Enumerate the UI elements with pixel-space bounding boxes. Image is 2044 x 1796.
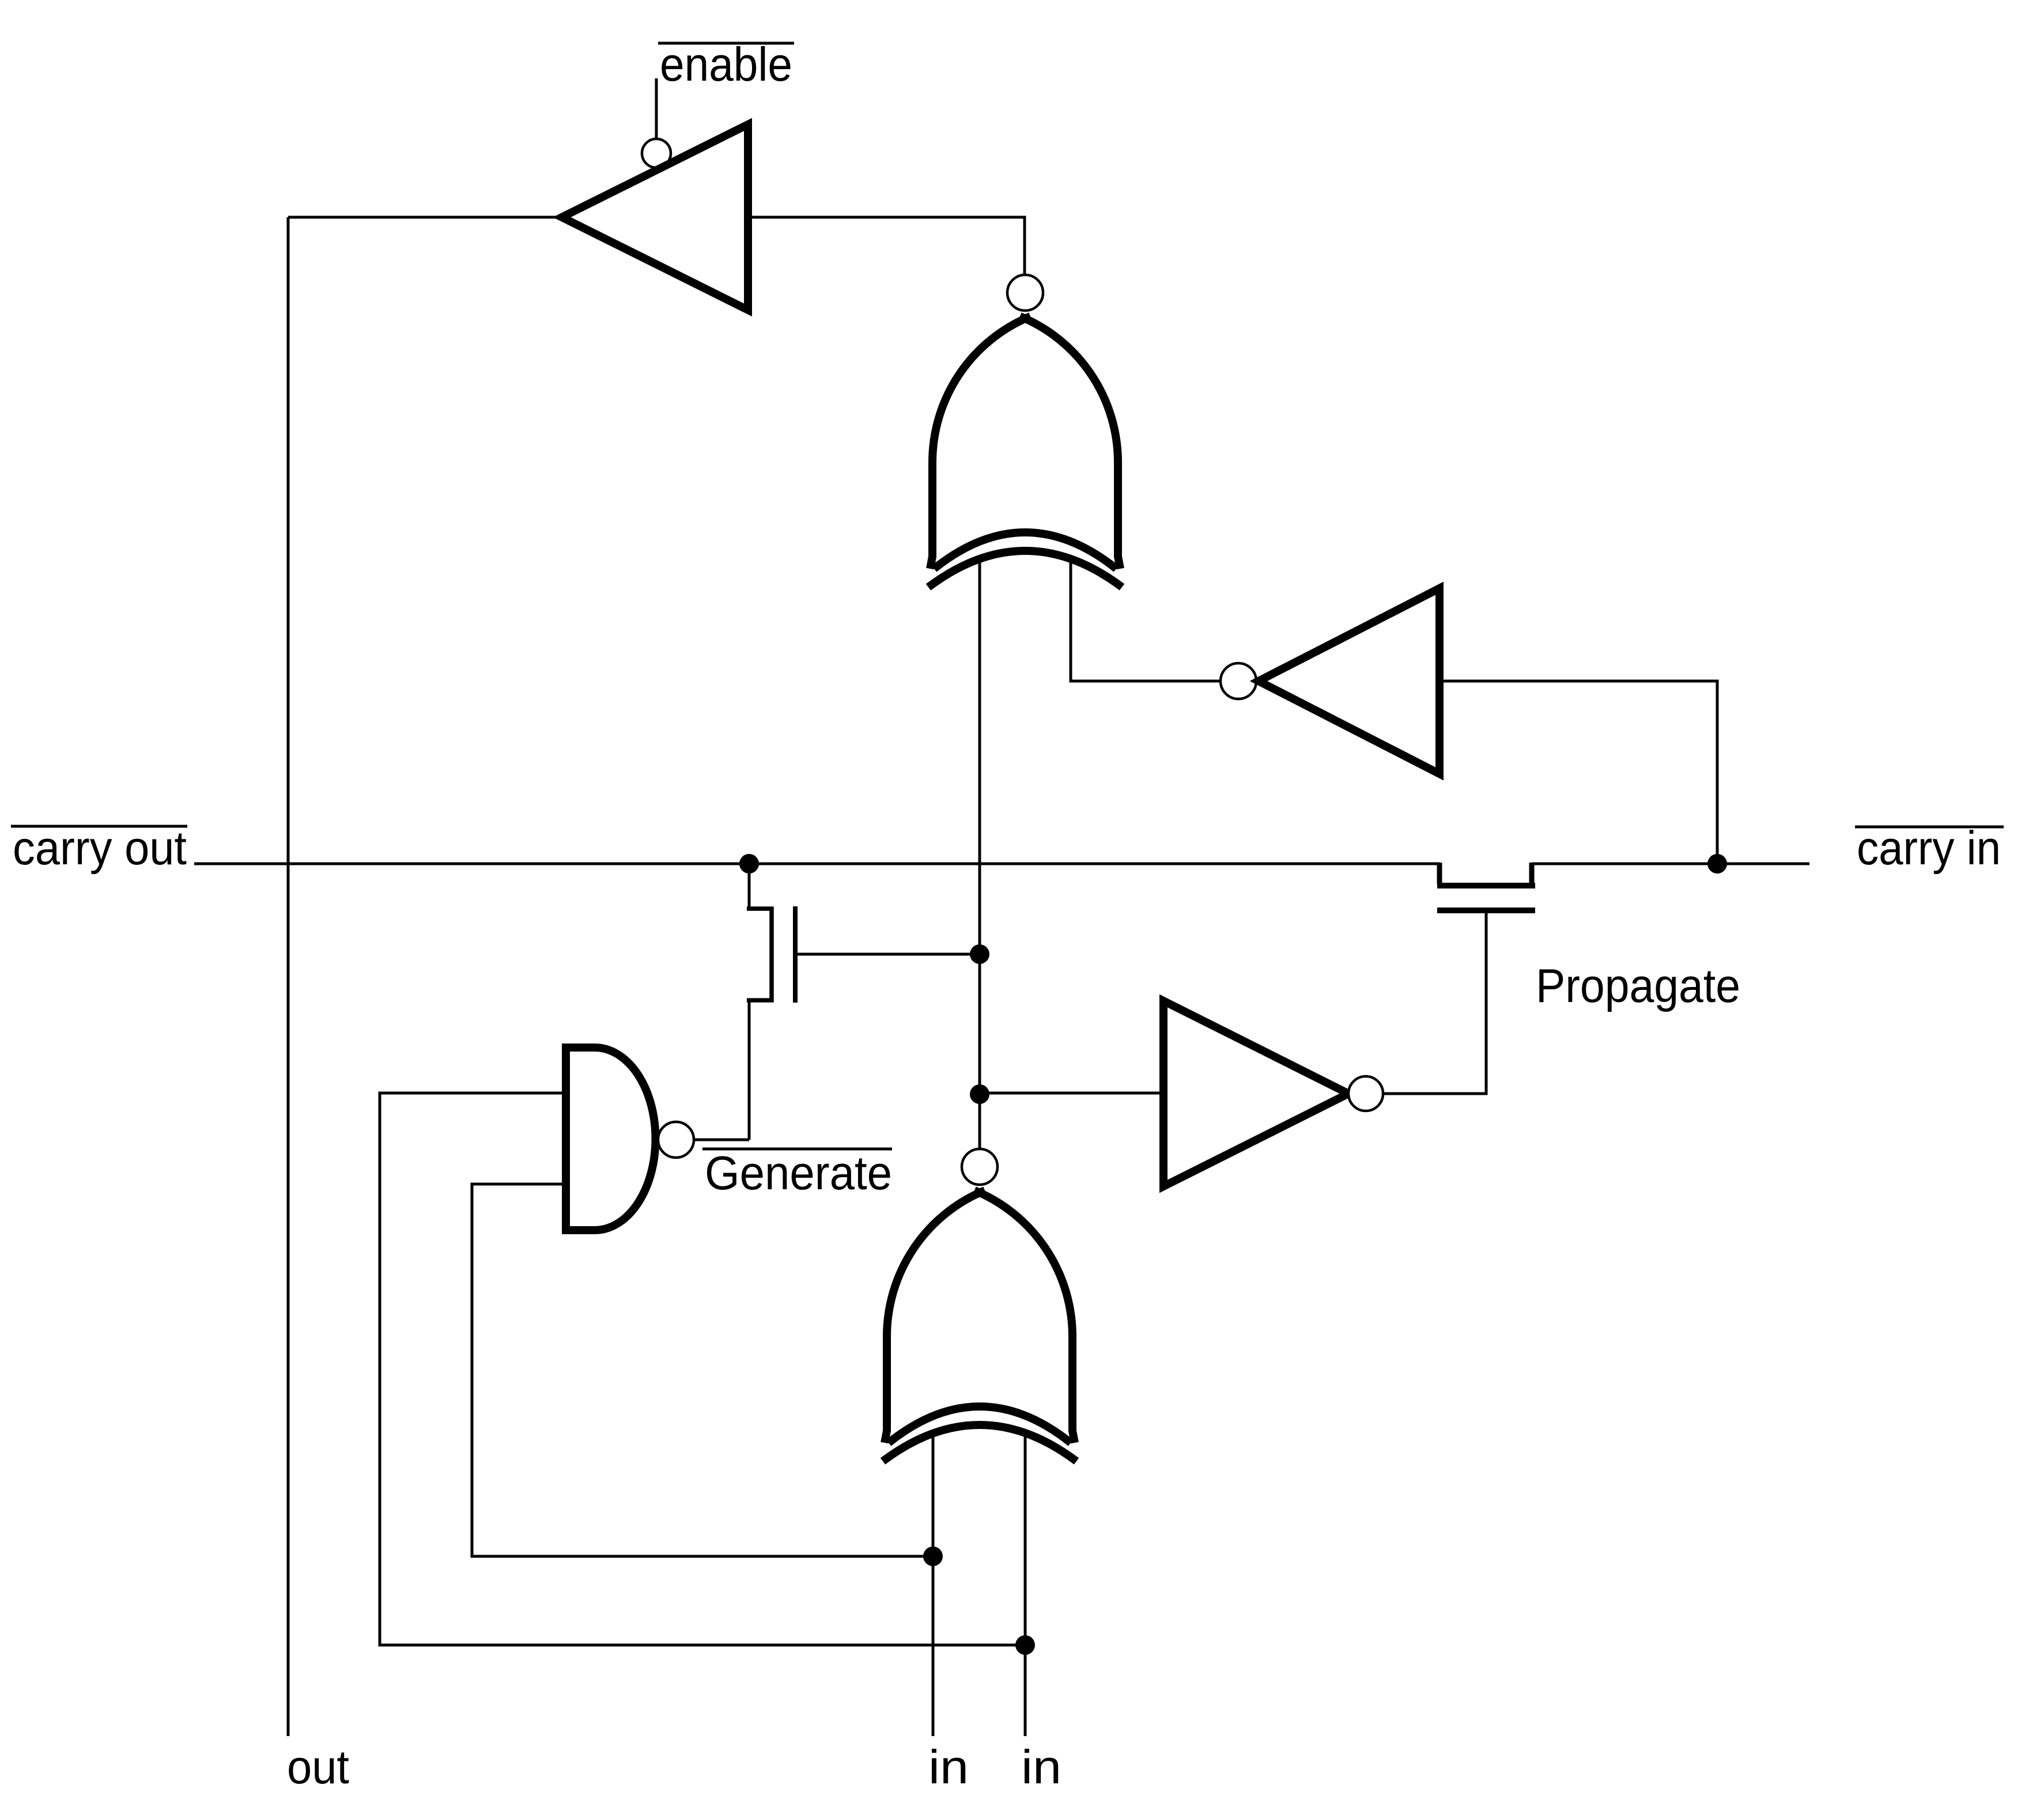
xnor gate U2 body — [928, 316, 1122, 587]
nand gate U5 body — [566, 1048, 656, 1230]
inverter U4 (right-pointing) — [1163, 1001, 1348, 1186]
svg-text:out: out — [287, 1740, 349, 1794]
transistor Q2 channel bar — [1437, 883, 1535, 888]
xnor gate U6 body — [883, 1190, 1076, 1461]
bubble on tristate enable input — [642, 139, 671, 168]
bubble inverter U3 output — [1221, 663, 1256, 699]
transistor Q2 source stub left — [1437, 863, 1442, 884]
node junction carry to inverter U3 — [1707, 854, 1727, 874]
transistor Q2 gate bar — [1437, 908, 1535, 913]
svg-text:carry in: carry in — [1857, 821, 2001, 875]
svg-text:in: in — [928, 1740, 969, 1794]
node junction left in — [923, 1547, 943, 1566]
bubble inverter U4 output — [1348, 1076, 1383, 1111]
transistor Q1 bottom wire stub — [748, 1001, 751, 1140]
wire node P center vertical — [978, 558, 981, 1149]
wire XNOR U6 right input in — [1024, 1434, 1027, 1736]
svg-text:Generate: Generate — [705, 1146, 892, 1200]
node junction carry to pass transistor Q1 — [739, 854, 759, 874]
transistor Q1 gate bar — [793, 906, 798, 1003]
label Generate overline — [702, 1148, 892, 1151]
svg-text:Propagate: Propagate — [1536, 959, 1740, 1012]
label carry out overline — [11, 825, 187, 828]
inverter U3 (left-pointing) — [1259, 588, 1440, 774]
wire transistor Q1 gate to node P — [798, 953, 980, 956]
wire out vertical — [287, 217, 290, 1736]
wire NAND bottom input — [472, 1184, 933, 1556]
svg-text:carry out: carry out — [13, 821, 187, 875]
wire tristate output to out line — [288, 216, 562, 219]
wire transistor Q2 gate to inverter U4 output — [1383, 913, 1486, 1094]
transistor Q1 top wire stub — [748, 864, 751, 908]
transistor Q2 drain stub right — [1529, 863, 1535, 884]
wire NAND top input — [380, 1093, 1025, 1645]
wire tristate input — [748, 217, 1025, 275]
node junction gate Q1 on center line — [970, 944, 989, 964]
wire carry chain left — [194, 863, 1440, 865]
svg-text:enable: enable — [660, 37, 792, 91]
label enable overline — [658, 42, 794, 45]
wire NAND output — [694, 1139, 749, 1141]
tristate inverter U1 (left-pointing) — [562, 124, 748, 310]
wire inverter U3 input from carry in — [1440, 681, 1717, 864]
label carry in overline — [1855, 826, 2004, 829]
wire inverter U4 input — [980, 1092, 1163, 1095]
bubble XNOR U2 output — [1007, 275, 1043, 311]
svg-text:in: in — [1021, 1740, 1061, 1794]
node junction D4 center to inverter U4 — [970, 1084, 989, 1104]
wire carry chain right — [1532, 863, 1809, 865]
wire enable stub — [655, 78, 658, 139]
wire XNOR U6 left input in — [932, 1434, 935, 1736]
bubble XNOR U6 output — [962, 1149, 998, 1185]
wire XNOR U2 right input to inverter U3 — [1071, 558, 1221, 681]
bubble NAND output — [658, 1122, 694, 1158]
node junction right in — [1015, 1635, 1035, 1655]
transistor Q1 channel bracket — [747, 909, 772, 1000]
